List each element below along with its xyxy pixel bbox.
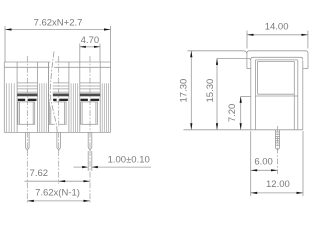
shared bottom extension line [184, 129, 251, 131]
dimension 7.20 [240, 96, 251, 129]
svg-text:1.00±0.10: 1.00±0.10 [108, 155, 150, 166]
wall hatch right [102, 83, 108, 132]
dimension 12.00 [251, 131, 303, 196]
svg-text:7.20: 7.20 [227, 104, 238, 123]
side view body sides [250, 60, 252, 130]
side view shoulder [251, 57, 303, 59]
centerline cell 2 [58, 56, 60, 150]
wall hatch left [7, 83, 15, 132]
break line [50, 52, 57, 133]
terminal cell 2 [49, 62, 69, 132]
dimension 14.00 [247, 31, 308, 49]
dimension 7.62xN+2.7 [5, 26, 111, 62]
svg-text:7.62x(N-1): 7.62x(N-1) [35, 188, 80, 199]
svg-text:14.00: 14.00 [265, 22, 289, 33]
centerline cell 3 [89, 56, 91, 150]
svg-text:15.30: 15.30 [205, 79, 216, 103]
svg-text:7.62: 7.62 [30, 168, 49, 179]
svg-text:6.00: 6.00 [254, 157, 273, 168]
terminal cell 3 [80, 62, 100, 132]
cell 2 left edge redraw [48, 62, 50, 132]
pin 1 [26, 132, 30, 150]
side view wire window inner [258, 61, 295, 129]
svg-text:4.70: 4.70 [81, 35, 100, 46]
dimension 4.70 [80, 44, 100, 63]
svg-text:12.00: 12.00 [266, 179, 290, 190]
dimension 15.30 [216, 58, 251, 129]
pin 3 [88, 132, 92, 150]
side view wire window outer [255, 60, 297, 130]
centerline cell 1 [26, 56, 28, 150]
dimension 6.00 [251, 131, 278, 196]
svg-text:7.62xN+2.7: 7.62xN+2.7 [34, 18, 83, 29]
dimension 7.62 [25, 180, 91, 182]
centerline pin3 extension [89, 150, 91, 204]
side view cap [247, 51, 308, 69]
break-out gap white halo [49, 52, 60, 133]
dimension 7.62x(N-1) [27, 200, 90, 202]
pin 2 [57, 132, 61, 150]
centerline pin1 extension [26, 150, 28, 204]
side view body bottom [251, 129, 303, 131]
dimension 1.00±0.10 [74, 151, 152, 171]
side view pin centerline [277, 126, 279, 174]
terminal cell 1 [17, 62, 37, 132]
front view body outline [4, 62, 110, 132]
dimension 17.30 [188, 51, 247, 130]
side view pin [275, 130, 279, 150]
centerline pin2 extension [58, 150, 60, 184]
wall hatch between cell1 and cell2 [40, 83, 47, 132]
wall hatch between cell2 and cell3 [71, 83, 78, 132]
svg-text:17.30: 17.30 [179, 79, 190, 103]
side view cap bottom stubs [247, 68, 251, 70]
